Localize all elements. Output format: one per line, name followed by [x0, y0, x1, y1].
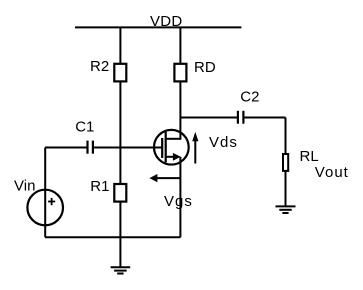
capacitor C2 [238, 111, 244, 124]
svg-text:R2: R2 [90, 58, 109, 75]
wire: VDD rail to R2 [119, 27, 121, 63]
ground (right) [276, 206, 296, 213]
svg-text:R1: R1 [90, 178, 109, 195]
svg-text:RD: RD [194, 59, 216, 76]
resistor RD [174, 64, 186, 82]
resistor R2 [114, 64, 126, 82]
arrow Vgs [149, 174, 180, 182]
wire: drain node to C2 [180, 117, 237, 119]
wire: ground stub bottom [119, 237, 121, 267]
wire: VDD rail [75, 26, 241, 28]
resistor RL [283, 154, 288, 171]
svg-text:VDD: VDD [150, 13, 183, 30]
transistor M1 (NMOS) [154, 130, 189, 165]
wire: C2 to RL branch [244, 117, 285, 119]
svg-text:Vgs: Vgs [164, 193, 193, 210]
wire: down to RL [285, 118, 287, 154]
svg-text:Vds: Vds [209, 134, 238, 151]
source Vin [27, 190, 63, 226]
wire: C1 to gate of M1 [94, 147, 162, 149]
wire: RL to ground [285, 171, 287, 207]
svg-text:Vout: Vout [315, 164, 349, 181]
capacitor C1 [88, 141, 93, 154]
wire: gate node down through Vin to bottom rail [44, 148, 46, 238]
wire: R1 to bottom rail [119, 202, 121, 238]
arrow Vds [192, 132, 198, 164]
wire: R2 to gate node [119, 82, 121, 184]
wire: RD to drain of M1 [179, 82, 181, 140]
svg-text:C2: C2 [240, 88, 259, 105]
ground (bottom) [111, 267, 131, 273]
wire: VDD rail to RD [179, 27, 181, 63]
resistor R1 [114, 184, 126, 202]
wire: bottom rail [45, 236, 180, 238]
wire: source of M1 to bottom rail [179, 157, 181, 238]
svg-text:RL: RL [300, 148, 319, 165]
svg-text:Vin: Vin [14, 177, 35, 194]
wire: Vin node to C1 [45, 147, 87, 149]
svg-text:C1: C1 [75, 118, 94, 135]
